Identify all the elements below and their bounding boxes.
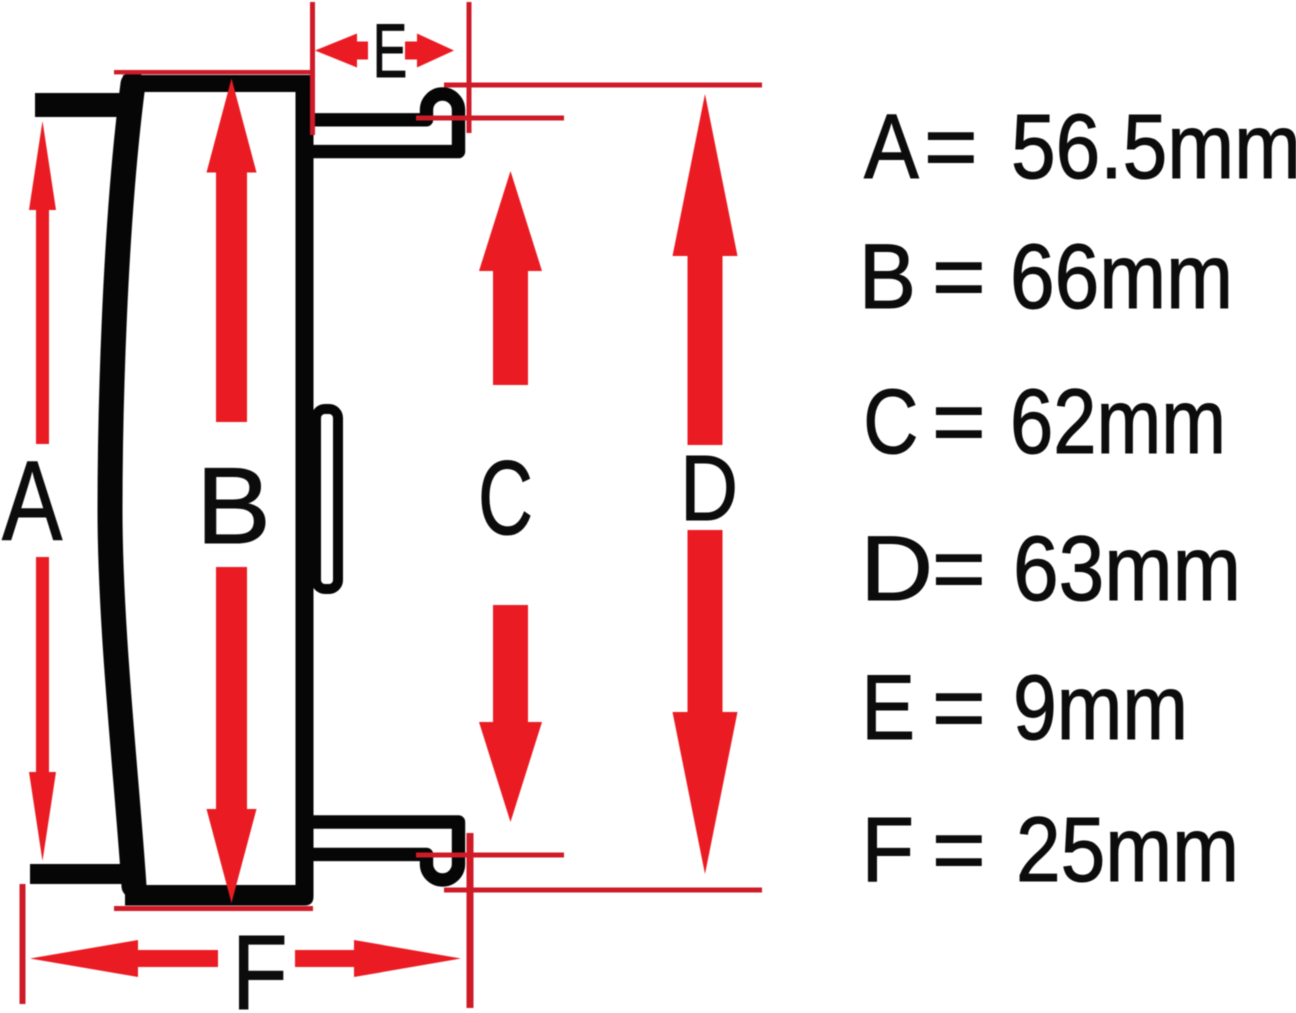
dimension D upper arrow — [673, 94, 738, 445]
extension line bottom-left (below body) — [114, 906, 313, 911]
svg-text:25mm: 25mm — [1016, 799, 1239, 901]
dimension C lower arrow — [479, 605, 542, 822]
svg-text:F: F — [232, 913, 288, 1013]
svg-text:=: = — [932, 657, 986, 759]
dimension A upper arrow — [29, 121, 56, 444]
extension line E left vertical — [310, 2, 315, 135]
cap side tab (rounded rect) — [316, 409, 338, 589]
svg-text:66mm: 66mm — [1010, 226, 1233, 328]
svg-text:=: = — [932, 518, 986, 620]
svg-text:F: F — [861, 797, 914, 900]
cap bottom retaining clip with hook — [306, 822, 459, 880]
extension line C bottom — [416, 853, 564, 858]
svg-text:=: = — [924, 96, 978, 198]
svg-text:56.5mm: 56.5mm — [1011, 96, 1296, 198]
dimension B upper arrow — [207, 79, 257, 423]
dimension B lower arrow — [207, 567, 257, 903]
svg-text:B: B — [196, 445, 271, 566]
svg-text:62mm: 62mm — [1010, 371, 1226, 473]
extension line F right vertical — [467, 833, 474, 1008]
dimension C upper arrow — [479, 171, 542, 385]
cap body top bar — [123, 75, 308, 92]
dimension F left arrow — [30, 940, 218, 977]
svg-text:63mm: 63mm — [1013, 518, 1241, 620]
extension line D bottom — [444, 888, 762, 893]
extension line C top — [416, 116, 564, 121]
svg-text:E: E — [861, 657, 915, 759]
cap bottom lip bar (left) — [30, 864, 128, 884]
cap top lip bar (left) — [35, 93, 128, 117]
svg-text:D: D — [680, 437, 738, 541]
extension line D top — [444, 83, 762, 88]
extension line F left vertical — [20, 884, 26, 1004]
svg-text:D: D — [860, 518, 933, 620]
extension line top-left (above body) — [114, 70, 312, 74]
svg-text:A: A — [2, 437, 63, 564]
svg-text:=: = — [932, 799, 986, 901]
svg-text:A: A — [864, 96, 920, 198]
svg-text:B: B — [859, 224, 916, 327]
cap body right edge and bottom bar — [125, 75, 314, 906]
dimension A lower arrow — [29, 557, 56, 861]
svg-text:C: C — [863, 370, 918, 472]
dimension F right arrow — [295, 940, 461, 977]
svg-text:=: = — [932, 371, 986, 473]
dimension D lower arrow — [673, 530, 738, 874]
svg-text:E: E — [373, 8, 407, 93]
cap top retaining clip with hook — [306, 94, 459, 152]
svg-text:=: = — [932, 226, 986, 328]
dimension E right arrow — [405, 34, 454, 68]
svg-text:C: C — [478, 440, 533, 557]
svg-text:9mm: 9mm — [1013, 657, 1188, 759]
dimension E left arrow — [315, 34, 368, 68]
extension line E right vertical — [467, 2, 472, 133]
cap curved face (left) — [110, 84, 134, 886]
